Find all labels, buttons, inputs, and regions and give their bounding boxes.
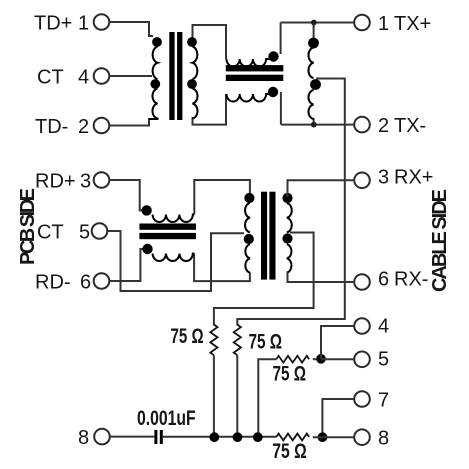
T1 secondary polarity dot top	[187, 37, 197, 47]
T2 primary polarity dot top	[244, 193, 254, 203]
wire choke L3 winding A to T2 primary top	[194, 180, 250, 215]
svg-text:2: 2	[378, 115, 389, 137]
wire TX winding bottom stub	[313, 118, 315, 125]
wire T2 secondary top to pin 3 RX+	[288, 180, 355, 197]
wire T2 secondary bottom to pin 6 RX-	[288, 273, 355, 283]
svg-text:8: 8	[378, 428, 389, 450]
junction R2 ground node	[233, 432, 243, 442]
junction node pins 4-5	[316, 354, 326, 364]
wire pin 7 to node 78	[322, 399, 354, 437]
pin 4 terminal	[354, 318, 370, 334]
svg-text:RX+: RX+	[394, 167, 433, 189]
T1 primary polarity dot center	[150, 79, 160, 89]
svg-text:6: 6	[378, 268, 389, 290]
L2 core bar upper	[226, 65, 283, 71]
svg-text:PCB SIDE: PCB SIDE	[17, 188, 39, 265]
pin 7 terminal	[354, 391, 370, 407]
svg-text:RD+: RD+	[35, 170, 76, 192]
resistor R4 75 ohm horizontal	[276, 434, 309, 441]
pin 4 terminal	[94, 68, 110, 84]
wire RX center tap to R1	[214, 233, 314, 326]
wire TX center tap to R2	[237, 79, 344, 326]
L3 core bar upper	[139, 224, 196, 230]
svg-text:CT: CT	[37, 66, 64, 88]
L2 winding B polarity dot	[268, 87, 278, 97]
junction R3 ground node	[253, 432, 263, 442]
T2 secondary polarity dot center	[282, 233, 292, 243]
svg-text:75 Ω: 75 Ω	[272, 439, 307, 463]
T1 secondary winding	[193, 47, 198, 119]
svg-text:2: 2	[78, 116, 89, 138]
pin 1 TX+ terminal	[354, 15, 370, 31]
wire pin 8 left to capacitor C1	[110, 436, 155, 438]
T2 primary polarity dot center	[244, 234, 254, 244]
wire choke L2 winding A to TX+ rail	[280, 23, 282, 55]
wire R1 bottom to ground rail	[213, 355, 215, 437]
svg-text:TD-: TD-	[35, 116, 68, 138]
pin 3 RX+ terminal	[354, 173, 370, 189]
svg-text:TD+: TD+	[34, 12, 72, 34]
L2 core bar lower	[226, 75, 283, 81]
svg-text:4: 4	[378, 315, 389, 337]
svg-text:RX-: RX-	[394, 268, 428, 290]
svg-text:1: 1	[78, 12, 89, 34]
wire choke L3 winding B to T2 primary bottom	[194, 254, 250, 282]
TX cable side winding	[308, 48, 313, 120]
T2 secondary polarity dot top	[282, 193, 292, 203]
T2 core bar right	[269, 192, 275, 280]
pin 8 right terminal	[354, 429, 370, 445]
junction R1 ground node	[209, 432, 219, 442]
capacitor C1 plate right	[160, 430, 163, 444]
svg-text:75 Ω: 75 Ω	[249, 329, 283, 353]
wire choke L2 winding B down to TX- rail	[280, 92, 282, 125]
TX winding polarity dot center	[310, 79, 321, 90]
svg-text:6: 6	[80, 271, 91, 293]
wire T1 secondary bottom to choke L2 winding B	[193, 94, 227, 125]
svg-text:RD-: RD-	[35, 271, 71, 293]
wire RD- pin6 to choke L3 winding B	[109, 249, 146, 281]
T2 primary winding	[245, 203, 250, 273]
svg-text:75 Ω: 75 Ω	[171, 323, 204, 347]
L3 winding B	[153, 254, 195, 262]
svg-text:3: 3	[378, 167, 389, 189]
wire node 45 to pin 4	[321, 326, 354, 359]
resistor R1 75 ohm vertical	[210, 325, 217, 356]
wire node 45 to pin 5	[321, 358, 354, 360]
wire R4 to pin 8 right	[313, 436, 354, 438]
wire TX winding top stub	[313, 23, 315, 41]
pin 5 terminal	[92, 223, 108, 239]
svg-text:0.001uF: 0.001uF	[137, 406, 196, 430]
junction TX+ node	[311, 20, 317, 26]
wire TX+ rail to pin 1 TX+	[281, 22, 355, 24]
pin 2 terminal	[94, 118, 110, 134]
svg-text:8: 8	[78, 427, 89, 449]
pin 2 TX- terminal	[354, 117, 370, 133]
T1 primary winding	[149, 47, 158, 120]
svg-text:1: 1	[378, 13, 389, 35]
resistor R3 75 ohm horizontal	[276, 356, 309, 363]
pin 5 terminal	[354, 352, 370, 368]
pin 3 terminal	[94, 172, 110, 188]
capacitor C1 plate left	[154, 430, 157, 444]
wire R3 right lead to node 45	[313, 358, 321, 360]
svg-text:TX+: TX+	[394, 13, 431, 35]
wire T1 secondary top to choke L2 winding A	[193, 25, 227, 59]
L3 winding B polarity dot	[142, 244, 152, 254]
pin 6 terminal	[94, 273, 110, 289]
wire ground rail capacitor to R4	[163, 436, 276, 438]
T2 secondary winding	[287, 203, 292, 273]
wire R2 bottom to ground rail	[236, 355, 238, 437]
wire CT pin4 to T1 primary center tap	[109, 75, 152, 77]
TX winding polarity dot top	[308, 38, 319, 49]
svg-text:7: 7	[378, 389, 389, 411]
svg-text:4: 4	[78, 66, 89, 88]
wire TX- rail to pin 2 TX-	[281, 124, 354, 126]
L3 winding A	[153, 215, 195, 223]
T2 core bar left	[261, 192, 267, 280]
svg-text:5: 5	[378, 349, 389, 371]
L2 winding A polarity dot	[268, 51, 278, 61]
svg-text:CABLE SIDE: CABLE SIDE	[429, 189, 451, 292]
resistor R2 75 ohm vertical	[234, 325, 241, 356]
pin 6 RX- terminal	[354, 274, 370, 290]
T1 core bar left	[169, 32, 174, 120]
pin 8 left terminal	[94, 429, 110, 445]
L3 core bar lower	[139, 233, 196, 239]
wire TD+ pin1 to T1 primary top	[109, 22, 153, 36]
L2 winding A	[227, 59, 270, 67]
svg-text:TX-: TX-	[394, 115, 426, 137]
svg-text:3: 3	[80, 170, 91, 192]
junction TX- node	[311, 122, 317, 128]
L2 winding B	[227, 94, 270, 102]
T1 secondary polarity dot center	[187, 79, 197, 89]
T1 core bar right	[177, 32, 182, 120]
svg-text:5: 5	[79, 221, 90, 243]
junction node 78	[318, 432, 328, 442]
wire TD- pin2 to T1 primary bottom	[109, 119, 153, 126]
L3 winding A polarity dot	[141, 205, 151, 215]
svg-text:75 Ω: 75 Ω	[273, 361, 307, 385]
wire R3 left lead down to ground rail	[258, 359, 276, 437]
pin 1 terminal	[94, 14, 110, 30]
svg-text:CT: CT	[37, 221, 64, 243]
wire RD+ pin3 to choke L3 winding A	[109, 180, 145, 210]
wire CT pin5 to T2 primary center tap	[107, 231, 244, 291]
T1 primary polarity dot top	[152, 37, 162, 47]
